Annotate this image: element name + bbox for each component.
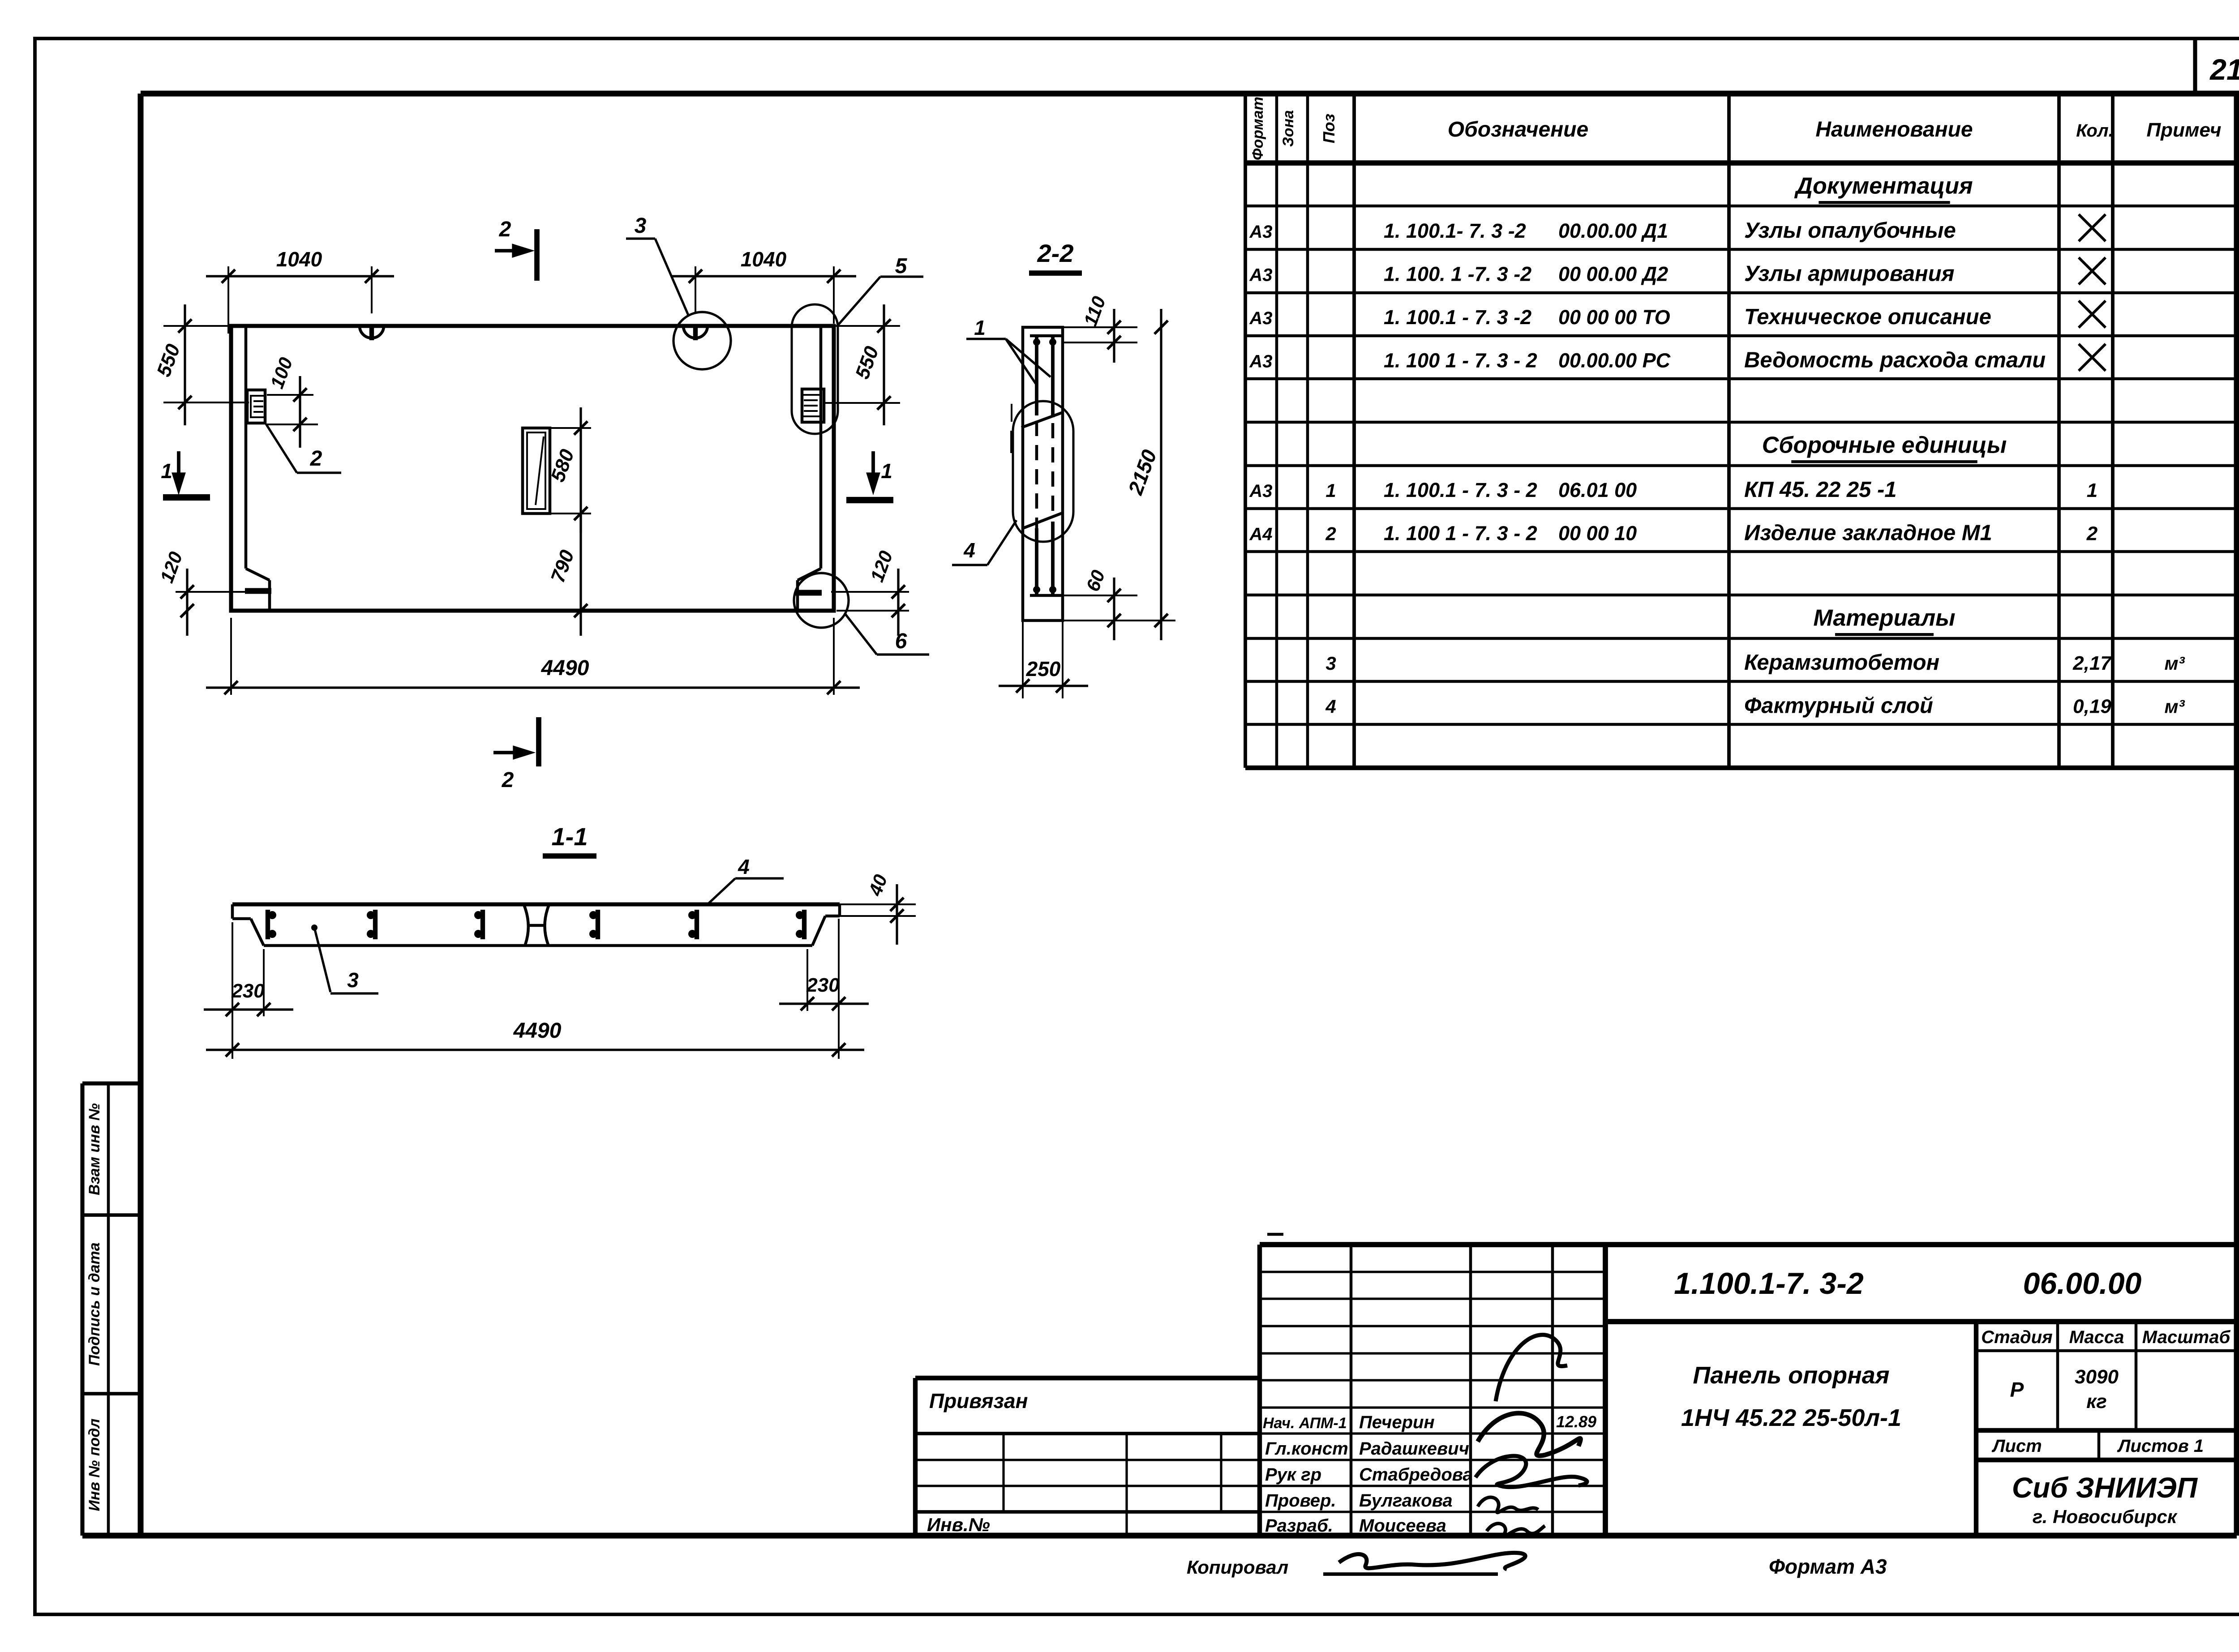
section 2-2 rebar left (dashed middle) <box>1035 421 1038 528</box>
section 1-1 callout 3: dot <box>311 924 317 931</box>
page number box line <box>2193 39 2197 94</box>
svg-text:Панель опорная: Панель опорная <box>1693 1362 1889 1389</box>
spec table column line (Naimenovanie/Kol) <box>2057 94 2061 768</box>
dim 550 left: extension top <box>163 325 231 327</box>
plan view: inner left contour line <box>244 326 248 569</box>
section 1-1 stirrup hook 4 <box>596 910 600 939</box>
dim 4490 plan: dimension line <box>206 686 860 689</box>
svg-text:Масштаб: Масштаб <box>2142 1327 2231 1347</box>
section 1-1 callout 3: underline <box>330 992 378 994</box>
callout 6: leader <box>845 614 877 655</box>
section 2-2 break line lower <box>1023 513 1062 528</box>
section 2-2 title underline <box>1029 270 1082 276</box>
massa/masshtab divider <box>2135 1322 2138 1430</box>
section mark 1 left: arrow <box>177 451 180 488</box>
callout 3: underline <box>626 237 655 240</box>
dim 550 left: extension bottom <box>163 402 249 403</box>
svg-text:21: 21 <box>2209 53 2239 86</box>
section 1-1 right step diagonal <box>812 916 825 946</box>
svg-text:5: 5 <box>895 254 908 278</box>
plan view: bottom-left rib mark <box>245 588 271 594</box>
svg-text:1: 1 <box>2087 479 2097 501</box>
svg-text:1. 100.1- 7. 3 -2: 1. 100.1- 7. 3 -2 <box>1384 219 1526 242</box>
section mark 2 bottom: bar <box>536 717 541 766</box>
signature scribble 4 <box>1487 1524 1545 1536</box>
svg-text:1: 1 <box>161 459 172 483</box>
section 1-1 title underline <box>543 853 596 859</box>
dim 4490 section: extension lines <box>232 1016 233 1059</box>
dim 120 right: extension line <box>831 591 909 593</box>
svg-text:Зона: Зона <box>1280 110 1297 147</box>
plan view: inner right contour line <box>819 326 823 569</box>
section 2-2 rebar right (solid top) <box>1051 335 1055 417</box>
section 1-1 stirrup hook 5 <box>695 910 699 939</box>
svg-text:г. Новосибирск: г. Новосибирск <box>2033 1506 2178 1527</box>
section 2-2 callout 1: leader b <box>1006 339 1051 377</box>
section 2-2 callout 4: underline <box>952 564 987 566</box>
plan view: embedded item M1 left <box>247 390 265 423</box>
svg-text:А3: А3 <box>1249 351 1272 371</box>
dim 100 left: dimension line <box>299 376 301 448</box>
svg-text:Наименование: Наименование <box>1815 118 1973 141</box>
left small table row line 3 <box>915 1485 1260 1487</box>
title block designation cell bottom <box>1605 1319 2237 1324</box>
dim 790 slot: dimension line <box>579 514 582 636</box>
section mark 2 top: arrow <box>495 249 528 253</box>
section 2-2 callout 1: underline <box>966 338 1006 340</box>
section 2-2 rebar left (solid bottom) <box>1035 528 1038 596</box>
svg-text:Фактурный слой: Фактурный слой <box>1744 693 1933 718</box>
plan view: top notch 2 (lifting recess) <box>683 326 708 338</box>
svg-text:Сиб ЗНИИЭП: Сиб ЗНИИЭП <box>2012 1472 2198 1504</box>
svg-text:4490: 4490 <box>513 1019 562 1043</box>
section 1-1 top edge <box>232 902 840 906</box>
title block top line <box>1260 1242 2237 1247</box>
staff table column line 2 <box>1469 1245 1472 1536</box>
left small table vertical b <box>1125 1434 1128 1536</box>
plan view: bottom-right rib mark <box>795 590 822 596</box>
spec table column line (Kol/Primech) <box>2111 94 2115 768</box>
section 1-1 left end vertical <box>231 904 234 919</box>
svg-text:2,17: 2,17 <box>2072 652 2112 674</box>
svg-text:2: 2 <box>310 447 322 471</box>
section 1-1 stirrup hook 6 <box>802 910 806 939</box>
callout 5: underline <box>880 275 923 278</box>
staff table row lines <box>1260 1271 1605 1273</box>
svg-text:Подпись и дата: Подпись и дата <box>86 1242 103 1366</box>
svg-text:Печерин: Печерин <box>1359 1412 1435 1432</box>
left margin table divider 2 <box>82 1392 141 1395</box>
svg-text:Инв № подл: Инв № подл <box>86 1418 103 1511</box>
dim 100 left: extension lines <box>267 394 313 396</box>
left margin table divider 1 <box>82 1213 141 1217</box>
drawing frame right line <box>2234 94 2239 1536</box>
svg-text:2: 2 <box>1325 523 1336 544</box>
section 1-1 stirrup hook 1 <box>266 910 270 939</box>
section 1-1 right end vertical <box>838 904 841 916</box>
svg-text:Взам инв №: Взам инв № <box>86 1103 103 1195</box>
staff table column line 1 <box>1350 1245 1353 1536</box>
svg-text:3: 3 <box>1325 653 1336 674</box>
dim 120 left: dimension line <box>186 569 188 636</box>
section 2-2 rebar anchor dots <box>1033 338 1040 346</box>
svg-text:4490: 4490 <box>541 656 589 680</box>
callout 2: leader <box>266 424 297 473</box>
dim 120 left: extension line <box>176 591 246 593</box>
callout circle 6 bottom right <box>794 573 849 628</box>
svg-text:00 00.00 Д2: 00 00.00 Д2 <box>1558 262 1668 285</box>
callout 3: leader <box>655 239 689 316</box>
svg-text:06.00.00: 06.00.00 <box>2023 1267 2142 1301</box>
svg-text:00 00 10: 00 00 10 <box>1558 522 1637 544</box>
svg-text:Сборочные единицы: Сборочные единицы <box>1762 432 2007 458</box>
dim 580 slot: extension lines <box>550 427 591 429</box>
drawing frame bottom line <box>82 1533 2237 1539</box>
section mark 1 left: bar <box>163 494 210 501</box>
section 1-1 left step diagonal <box>251 919 264 946</box>
svg-text:2-2: 2-2 <box>1037 239 1074 267</box>
dim 60: extension line <box>1063 595 1137 596</box>
dim 550 right: extension top <box>834 325 900 327</box>
svg-text:1. 100.1 - 7. 3 - 2: 1. 100.1 - 7. 3 - 2 <box>1384 479 1537 501</box>
dim 230 right: dimension line <box>779 1002 869 1005</box>
list row bottom line <box>1976 1458 2237 1462</box>
svg-text:0,19: 0,19 <box>2073 695 2111 717</box>
svg-text:А3: А3 <box>1249 481 1272 501</box>
dim 550 right: extension bottom <box>825 402 900 404</box>
spec table column line (Poz/Oboznachenie) <box>1352 94 1356 768</box>
dim 1040 top-left: dimension line <box>206 275 394 277</box>
spec table column line (Zona/Poz) <box>1306 94 1309 768</box>
section 2-2 callout 1: leader a <box>1006 339 1036 384</box>
spec table left edge <box>1244 94 1247 768</box>
Kopiroval underline <box>1323 1572 1498 1576</box>
svg-text:Документация: Документация <box>1794 173 1973 199</box>
Kopiroval signature <box>1339 1553 1525 1569</box>
svg-text:1. 100 1 - 7. 3 - 2: 1. 100 1 - 7. 3 - 2 <box>1384 349 1537 372</box>
callout circle 3 around notch <box>673 312 731 369</box>
section 2-2 rebar bottom tick <box>1030 594 1062 597</box>
svg-text:Узлы опалубочные: Узлы опалубочные <box>1744 218 1956 243</box>
svg-text:Листов 1: Листов 1 <box>2117 1436 2204 1456</box>
dim 230 left: dimension line <box>204 1008 293 1010</box>
svg-text:4: 4 <box>738 855 750 878</box>
drawing frame left line <box>138 94 144 1536</box>
spec table row lines <box>1245 205 2237 208</box>
signature scribble 2 <box>1476 1456 1587 1487</box>
section mark 1 right: arrow <box>871 451 875 488</box>
svg-text:250: 250 <box>1026 657 1061 680</box>
svg-text:Привязан: Привязан <box>929 1389 1028 1412</box>
spec table header bottom line <box>1245 160 2237 166</box>
section 2-2 rebar left (solid top) <box>1035 335 1038 415</box>
title block left vertical (staff table left) <box>1257 1245 1262 1536</box>
section 1-1 left step horizontal <box>232 917 251 920</box>
dim 1040 top-left: extension lines <box>227 266 229 334</box>
plan view: embedded item M1 right <box>802 389 824 422</box>
section 1-1 callout 4: underline <box>735 877 784 879</box>
dim 120 right: dimension line <box>897 569 899 636</box>
plan view: central slot opening <box>523 428 550 514</box>
svg-text:00 00 00 ТО: 00 00 00 ТО <box>1558 306 1670 329</box>
svg-text:1НЧ 45.22 25-50л-1: 1НЧ 45.22 25-50л-1 <box>1681 1404 1901 1431</box>
section 1-1 stirrup hook 3 <box>480 910 485 939</box>
svg-text:12.89: 12.89 <box>1556 1412 1596 1431</box>
svg-text:00.00.00 Д1: 00.00.00 Д1 <box>1558 219 1668 242</box>
plan view: inner left diagonal <box>246 569 270 580</box>
svg-text:2: 2 <box>499 218 511 241</box>
svg-text:1: 1 <box>974 316 986 339</box>
spec table bottom line <box>1245 766 2237 770</box>
svg-text:Керамзитобетон: Керамзитобетон <box>1744 651 1939 675</box>
section 1-1 stirrup hook 2 <box>373 910 377 939</box>
section 2-2 stadium callout <box>1013 401 1073 542</box>
plan view: stadium callout around right M1 <box>792 304 838 434</box>
svg-text:Стабредова: Стабредова <box>1359 1465 1473 1485</box>
section mark 2 top: bar <box>534 229 540 281</box>
dim 1040 top-right: extension lines <box>695 266 696 313</box>
svg-text:Узлы армирования: Узлы армирования <box>1744 261 1954 286</box>
svg-text:м³: м³ <box>2164 696 2185 717</box>
section 2-2 break line upper <box>1021 413 1062 428</box>
svg-text:А3: А3 <box>1249 308 1272 328</box>
svg-text:1040: 1040 <box>276 248 322 271</box>
svg-text:А3: А3 <box>1249 265 1272 285</box>
section 1-1 right step horizontal <box>825 915 840 918</box>
section 1-1 bottom edge <box>264 944 812 947</box>
section 1-1 center key joint <box>524 905 528 945</box>
svg-text:3: 3 <box>635 214 647 238</box>
dim 40: extension lines <box>840 903 916 905</box>
svg-text:3: 3 <box>347 968 359 992</box>
left small table vertical a <box>1002 1434 1004 1512</box>
svg-text:кг: кг <box>2086 1391 2107 1412</box>
svg-text:Ведомость расхода стали: Ведомость расхода стали <box>1744 348 2046 372</box>
svg-text:4: 4 <box>1325 696 1336 717</box>
svg-text:00.00.00 РС: 00.00.00 РС <box>1558 349 1671 372</box>
signature scribble 3 <box>1478 1497 1538 1512</box>
title block big vertical (staff/designation) <box>1603 1245 1608 1536</box>
svg-text:Р: Р <box>2010 1378 2024 1401</box>
svg-text:1040: 1040 <box>741 248 787 271</box>
section 1-1 callout 3: leader <box>314 928 330 992</box>
svg-text:Обозначение: Обозначение <box>1448 118 1588 141</box>
dim 550 right: dimension line <box>883 304 885 425</box>
svg-text:КП 45. 22 25 -1: КП 45. 22 25 -1 <box>1744 478 1897 502</box>
section 2-2 rebar right (dashed middle) <box>1051 423 1055 515</box>
left small table row line 1 <box>915 1432 1260 1435</box>
plan view: inner right diagonal <box>798 569 821 580</box>
dim 550 left: dimension line <box>184 304 186 425</box>
svg-text:Кол.: Кол. <box>2076 121 2114 141</box>
left small table vertical c <box>1220 1434 1222 1512</box>
dim 60: dimension line <box>1113 578 1115 640</box>
dim 250: extension lines <box>1022 621 1024 698</box>
stadia value row bottom line <box>1976 1428 2237 1433</box>
signature scribble 1 <box>1496 1335 1567 1401</box>
list/listov divider <box>2097 1430 2101 1460</box>
title block vertical (name/stadia) <box>1974 1322 1978 1536</box>
svg-text:м³: м³ <box>2164 653 2185 674</box>
svg-text:Масса: Масса <box>2069 1327 2124 1347</box>
spec table column line (Formate/Zona) <box>1275 94 1278 768</box>
svg-text:2: 2 <box>502 768 514 792</box>
dim 120 right: extension line low <box>836 610 909 612</box>
drawing frame top line <box>141 91 2239 97</box>
svg-text:Нач. АПМ-1: Нач. АПМ-1 <box>1263 1415 1347 1432</box>
section 2-2 callout 4: leader <box>987 520 1017 565</box>
title block Privyazan cell left vertical <box>913 1378 918 1536</box>
svg-text:Примеч: Примеч <box>2147 119 2222 141</box>
svg-text:Материалы: Материалы <box>1813 605 1955 631</box>
svg-text:Инв.№: Инв.№ <box>927 1514 990 1535</box>
plan view: inner left bottom vertical <box>268 580 271 611</box>
stadia/massa divider <box>2056 1322 2059 1430</box>
dim 40: dimension line <box>896 884 898 945</box>
plan view: panel outline <box>231 326 834 611</box>
callout 5: leader <box>836 277 880 327</box>
svg-text:Провер.: Провер. <box>1265 1491 1336 1511</box>
svg-text:06.01 00: 06.01 00 <box>1558 479 1637 501</box>
spec table column line (Oboznachenie/Naimenovanie) <box>1727 94 1731 768</box>
section 2-2 rebar top tick <box>1030 334 1062 338</box>
section 2-2 facing layer ticks <box>1011 404 1012 422</box>
dim 1040 top-right: dimension line <box>672 275 856 277</box>
plan view: inner right bottom vertical <box>796 580 799 611</box>
svg-text:230: 230 <box>231 980 265 1002</box>
svg-text:А3: А3 <box>1249 222 1272 242</box>
svg-text:Радашкевич: Радашкевич <box>1359 1439 1469 1459</box>
dim 110: dimension line <box>1113 309 1115 363</box>
title block Privyazan cell top line <box>915 1376 1260 1380</box>
plan view: top notch 1 (lifting recess) <box>360 326 384 338</box>
svg-text:Копировал: Копировал <box>1187 1557 1288 1578</box>
svg-text:1. 100 1 - 7. 3 - 2: 1. 100 1 - 7. 3 - 2 <box>1384 522 1537 544</box>
stadia header row bottom line <box>1976 1349 2237 1352</box>
small dash above staff table <box>1267 1233 1283 1236</box>
svg-text:4: 4 <box>963 539 975 562</box>
section 2-2 outline <box>1023 327 1063 621</box>
svg-text:1: 1 <box>881 459 892 483</box>
svg-text:2: 2 <box>2086 522 2098 544</box>
left small table row line 4 <box>915 1510 1260 1514</box>
svg-text:1. 100.1 - 7. 3 -2: 1. 100.1 - 7. 3 -2 <box>1384 306 1531 329</box>
svg-text:Изделие закладное М1: Изделие закладное М1 <box>1744 521 1992 545</box>
section 1-1 callout 4: leader <box>708 878 735 904</box>
section 2-2 rebar right (solid bottom) <box>1051 522 1055 596</box>
svg-text:Техническое описание: Техническое описание <box>1744 305 1991 329</box>
svg-text:1.100.1-7. 3-2: 1.100.1-7. 3-2 <box>1674 1267 1864 1301</box>
svg-text:Формат А3: Формат А3 <box>1769 1555 1887 1578</box>
dim 580 slot: dimension line <box>579 407 582 533</box>
dim 4490 plan: extension lines <box>230 618 232 695</box>
dim 230 left: extension lines <box>232 922 233 1016</box>
dim 230 right: extension lines <box>806 949 808 1011</box>
svg-text:Формат: Формат <box>1249 97 1266 160</box>
dim 250: dimension line <box>999 685 1088 687</box>
callout 6: underline <box>877 653 929 655</box>
svg-text:Разраб.: Разраб. <box>1265 1516 1333 1536</box>
svg-text:Поз: Поз <box>1320 114 1338 143</box>
dim 2150: dimension line <box>1160 309 1162 640</box>
svg-text:230: 230 <box>806 974 840 996</box>
svg-text:Гл.конст: Гл.конст <box>1265 1439 1348 1459</box>
section mark 1 right: bar <box>846 497 893 503</box>
svg-text:Стадия: Стадия <box>1981 1327 2052 1347</box>
svg-text:Рук гр: Рук гр <box>1265 1465 1321 1485</box>
dim 110: extension lines <box>1063 326 1137 328</box>
svg-text:Моисеева: Моисеева <box>1359 1516 1446 1536</box>
dim 2150: extension lines <box>1063 620 1175 621</box>
svg-text:Лист: Лист <box>1991 1436 2042 1456</box>
dim 4490 section: dimension line <box>206 1049 864 1051</box>
svg-text:1-1: 1-1 <box>552 822 588 851</box>
left small table row line 2 <box>915 1459 1260 1461</box>
staff table column line 3 <box>1551 1245 1554 1536</box>
svg-text:1. 100. 1 -7. 3 -2: 1. 100. 1 -7. 3 -2 <box>1384 262 1531 285</box>
svg-text:Булгакова: Булгакова <box>1359 1491 1453 1511</box>
svg-text:1: 1 <box>1325 480 1336 501</box>
svg-text:6: 6 <box>895 629 907 653</box>
svg-text:А4: А4 <box>1249 524 1272 544</box>
left margin table outer lines <box>80 1083 84 1536</box>
svg-text:3090: 3090 <box>2075 1366 2119 1388</box>
section mark 2 bottom: arrow <box>493 751 528 754</box>
callout 2: underline <box>297 471 341 474</box>
